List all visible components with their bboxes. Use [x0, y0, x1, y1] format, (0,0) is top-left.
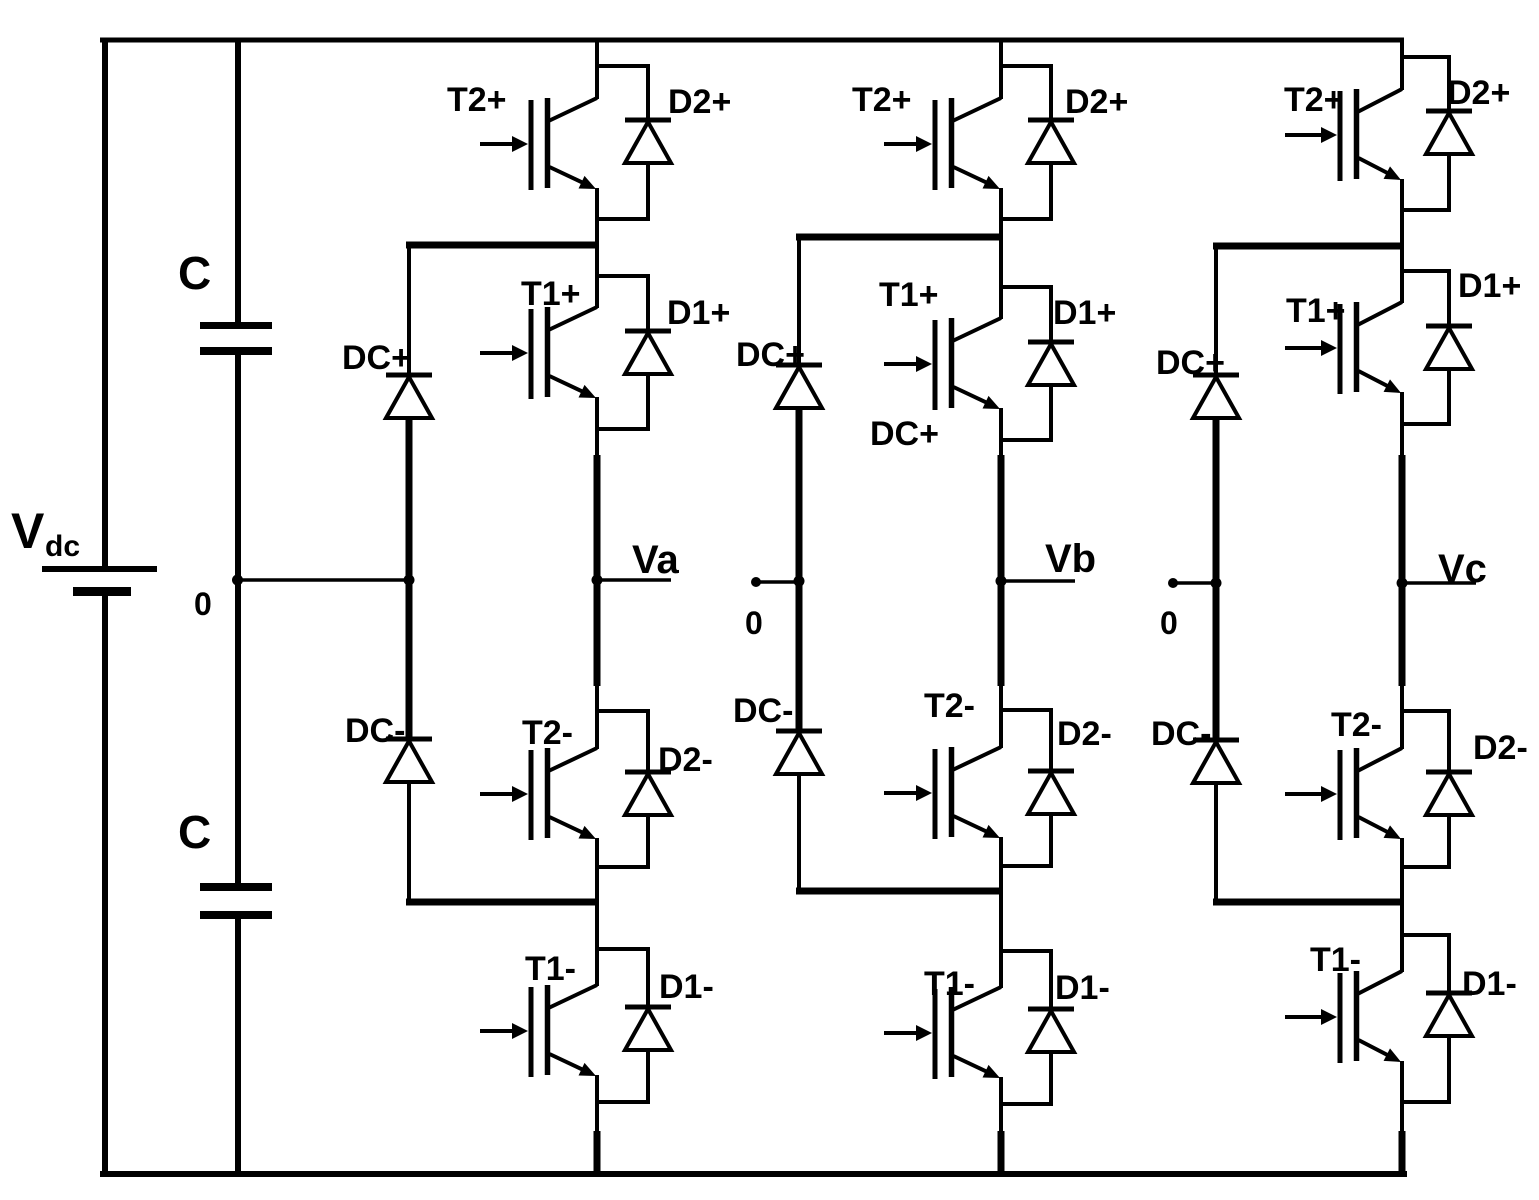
svg-text:T1+: T1+	[879, 276, 939, 314]
wire: DC- anode down to bottom clamp bus, phase a	[407, 781, 411, 902]
wire: clamp bus to T1+ collector, phase c	[1400, 246, 1404, 303]
diode D2+ phase c	[1426, 111, 1472, 154]
transistor T2- phase a	[480, 748, 597, 840]
node Vb: junction dot	[996, 576, 1007, 587]
wire: T2+ emitter down to clamp bus, phase b	[999, 188, 1003, 240]
svg-text:D2+: D2+	[668, 83, 731, 121]
wire: capacitor branch from top rail	[235, 38, 241, 326]
svg-text:C: C	[178, 247, 211, 299]
svg-text:D1+: D1+	[1458, 267, 1521, 305]
wire: T1+ emitter down to output node Va (thick)	[595, 397, 599, 456]
wire: T1+ emitter down to output node Vb (thick)	[999, 408, 1003, 456]
wire: jog from leg to D2+ cathode, phase a	[597, 66, 648, 121]
wire: jog from leg to D1+ cathode, phase b	[1001, 287, 1051, 343]
wire: T2+ emitter down to clamp bus, phase a	[595, 188, 599, 248]
wire: jog from leg to D1+ cathode, phase a	[597, 276, 648, 332]
svg-text:DC+: DC+	[1156, 344, 1225, 382]
diode DC+ clamp diode, phase a	[386, 375, 432, 418]
node: neutral junction dot on clamp branch, phase a	[404, 575, 415, 586]
svg-text:T2-: T2-	[522, 714, 573, 752]
svg-text:T1+: T1+	[1286, 292, 1346, 330]
node: neutral junction dot on clamp branch, phase c	[1211, 578, 1222, 589]
wire: jog from leg to D2- cathode, phase b	[1001, 710, 1051, 772]
wire: DC+ clamp branch from bus down, phase c	[1214, 246, 1218, 376]
svg-text:T1-: T1-	[1310, 941, 1361, 979]
wire: thick neutral branch through junction, phase c	[1213, 416, 1220, 742]
node: neutral junction dot on clamp branch, phase b	[794, 576, 805, 587]
wire: thick neutral branch through junction, phase b	[796, 406, 803, 733]
diode D1+ phase b	[1028, 342, 1074, 385]
diode D2+ phase a	[625, 120, 671, 163]
svg-text:T1+: T1+	[521, 275, 581, 313]
diode DC+ clamp diode, phase c	[1193, 375, 1239, 418]
transistor T1- phase b	[884, 987, 1001, 1079]
wire: thick neutral branch through junction, phase a	[406, 416, 413, 741]
wire: T1+ emitter down to output node Vc (thick)	[1400, 392, 1404, 456]
wire: clamp bus to T1- collector, phase a	[595, 902, 599, 986]
wire: thick clamp bus bottom, phase c	[1213, 899, 1404, 906]
transistor T1- phase c	[1285, 971, 1402, 1063]
wire: jog from leg to D1+ cathode, phase c	[1402, 271, 1449, 327]
wire: node to T2- collector, phase a	[595, 685, 599, 749]
wire: c-phase leg from top rail to T2 collector	[1400, 38, 1404, 90]
diode DC- clamp diode, phase a	[386, 739, 432, 782]
wire: clamp bus to T1- collector, phase b	[999, 891, 1003, 988]
wire: T2- emitter down to bottom clamp bus, phase a	[595, 838, 599, 905]
wire: jog from leg to D2+ cathode, phase b	[1001, 66, 1051, 121]
diode D1+ phase c	[1426, 326, 1472, 369]
wire: bottom DC bus rail	[100, 1171, 1407, 1177]
wire: left source lead (bottom)	[102, 596, 108, 1176]
svg-text:DC+: DC+	[870, 415, 939, 453]
diode D2- phase b	[1028, 771, 1074, 814]
wire: T2- emitter down to bottom clamp bus, phase b	[999, 837, 1003, 894]
diode D1+ phase a	[625, 331, 671, 374]
wire: D2+ anode jog back to leg, phase c	[1402, 153, 1449, 210]
wire: D1- anode jog back to leg, phase c	[1402, 1035, 1449, 1102]
wire: neutral link from node 0 to phase-a clamp branch	[238, 578, 409, 582]
wire: node to T2- collector, phase b	[999, 685, 1003, 748]
wire: jog from leg to D1- cathode, phase b	[1001, 951, 1051, 1010]
diode D1- phase a	[625, 1007, 671, 1050]
wire: DC+ clamp branch from bus down, phase b	[797, 237, 801, 366]
wire: thick clamp bus top, phase b	[796, 234, 1003, 241]
svg-text:D1+: D1+	[667, 294, 730, 332]
label Vdc	[11, 503, 80, 563]
svg-text:D2-: D2-	[658, 741, 713, 779]
wire: jog from leg to D2+ cathode, phase c	[1402, 57, 1449, 112]
wire: DC- anode down to bottom clamp bus, phase c	[1214, 782, 1218, 902]
svg-text:D1+: D1+	[1053, 294, 1116, 332]
wire: D1+ anode jog back to leg, phase c	[1402, 368, 1449, 424]
wire: b-phase leg from top rail to T2 collector	[999, 38, 1003, 99]
wire: jog from leg to D2- cathode, phase a	[597, 711, 648, 773]
wire: D1- anode jog back to leg, phase b	[1001, 1051, 1051, 1104]
wire: T1- emitter down to bottom rail (thick end), phase c	[1400, 1061, 1404, 1132]
svg-text:T2-: T2-	[924, 687, 975, 725]
svg-text:D1-: D1-	[659, 968, 714, 1006]
wire: D2- anode jog back to leg, phase a	[597, 813, 648, 867]
svg-text:0: 0	[745, 605, 763, 641]
wire: jog from leg to D2- cathode, phase c	[1402, 711, 1449, 773]
wire: D2- anode jog back to leg, phase c	[1402, 813, 1449, 867]
wire: thick clamp bus bottom, phase a	[406, 899, 599, 906]
transistor T1- phase a	[480, 985, 597, 1077]
wire: DC- anode down to bottom clamp bus, phase b	[797, 773, 801, 891]
transistor T1+ phase c	[1285, 302, 1402, 394]
svg-text:D1-: D1-	[1462, 965, 1517, 1003]
diode DC- clamp diode, phase b	[776, 731, 822, 774]
svg-text:T2+: T2+	[1284, 81, 1344, 119]
wire: T2+ emitter down to clamp bus, phase c	[1400, 179, 1404, 249]
wire: D1- anode jog back to leg, phase a	[597, 1049, 648, 1102]
wire: node to T2- collector, phase c	[1400, 685, 1404, 749]
svg-text:T2+: T2+	[447, 81, 507, 119]
svg-text:0: 0	[1160, 605, 1178, 641]
svg-text:C: C	[178, 806, 211, 858]
svg-text:DC+: DC+	[342, 339, 411, 377]
diode D1- phase c	[1426, 993, 1472, 1036]
wire: D1+ anode jog back to leg, phase a	[597, 373, 648, 429]
wire: capacitor branch to lower capacitor	[235, 580, 241, 888]
wire: T1- emitter down to bottom rail (thick end), phase b	[999, 1077, 1003, 1132]
wire: D2- anode jog back to leg, phase b	[1001, 812, 1051, 866]
svg-text:DC-: DC-	[345, 712, 405, 750]
wire: left source lead (top)	[102, 38, 108, 566]
svg-text:DC-: DC-	[1151, 715, 1211, 753]
wire: thick clamp bus bottom, phase b	[796, 888, 1003, 895]
svg-text:T2-: T2-	[1331, 706, 1382, 744]
node 0 stub, phase b	[751, 577, 804, 587]
svg-text:Vc: Vc	[1438, 547, 1487, 591]
transistor T2+ phase c	[1285, 89, 1402, 181]
transistor T1+ phase b	[884, 318, 1001, 410]
svg-text:T2+: T2+	[852, 81, 912, 119]
wire: thick clamp bus top, phase c	[1213, 243, 1404, 250]
svg-text:DC-: DC-	[733, 692, 793, 730]
wire: clamp bus to T1- collector, phase c	[1400, 902, 1404, 972]
diode D2- phase a	[625, 772, 671, 815]
transistor T2+ phase b	[884, 98, 1001, 190]
svg-text:D2-: D2-	[1473, 729, 1528, 767]
wire: a-phase leg from top rail to T2 collector	[595, 38, 599, 99]
svg-text:D2+: D2+	[1447, 74, 1510, 112]
wire: T1- emitter down to bottom rail (thick end), phase a	[595, 1075, 599, 1132]
svg-text:0: 0	[194, 586, 212, 622]
capacitor C (upper)	[200, 326, 272, 581]
battery Vdc	[42, 569, 157, 592]
wire: DC+ clamp branch from bus down, phase a	[407, 245, 411, 376]
diode DC- clamp diode, phase c	[1193, 740, 1239, 783]
transistor T1+ phase a	[480, 307, 597, 399]
svg-text:D1-: D1-	[1055, 969, 1110, 1007]
transistor T2- phase b	[884, 747, 1001, 839]
transistor T2+ phase a	[480, 98, 597, 190]
svg-text:T1-: T1-	[525, 950, 576, 988]
wire: D2+ anode jog back to leg, phase a	[597, 162, 648, 219]
svg-text:dc: dc	[45, 530, 80, 563]
wire: clamp bus to T1+ collector, phase b	[999, 237, 1003, 319]
wire: jog from leg to D1- cathode, phase a	[597, 949, 648, 1008]
wire: output stub Vb	[1001, 579, 1075, 583]
svg-text:V: V	[11, 503, 45, 559]
wire: T2- emitter down to bottom clamp bus, phase c	[1400, 838, 1404, 905]
wire: D2+ anode jog back to leg, phase b	[1001, 162, 1051, 219]
wire: output stub Vc	[1402, 581, 1476, 585]
wire: top DC bus rail	[100, 38, 1404, 43]
wire: output stub Va	[597, 578, 671, 582]
svg-text:Va: Va	[632, 538, 679, 582]
wire: clamp bus to T1+ collector, phase a	[595, 245, 599, 308]
svg-text:D2+: D2+	[1065, 83, 1128, 121]
wire: D1+ anode jog back to leg, phase b	[1001, 384, 1051, 440]
node Vc: junction dot	[1397, 578, 1408, 589]
svg-text:D2-: D2-	[1057, 715, 1112, 753]
transistor T2- phase c	[1285, 748, 1402, 840]
diode DC+ clamp diode, phase b	[776, 365, 822, 408]
node Va: junction dot	[592, 575, 603, 586]
node 0 stub, phase c	[1168, 578, 1221, 588]
diode D2+ phase b	[1028, 120, 1074, 163]
wire: thick clamp bus top, phase a	[406, 242, 599, 249]
svg-text:T1-: T1-	[924, 965, 975, 1003]
svg-text:DC+: DC+	[736, 336, 805, 374]
capacitor C (lower)	[200, 887, 272, 1176]
diode D2- phase c	[1426, 772, 1472, 815]
diode D1- phase b	[1028, 1009, 1074, 1052]
wire: jog from leg to D1- cathode, phase c	[1402, 935, 1449, 994]
node 0: junction dot at capacitor midpoint	[232, 575, 243, 586]
svg-text:Vb: Vb	[1045, 537, 1096, 581]
